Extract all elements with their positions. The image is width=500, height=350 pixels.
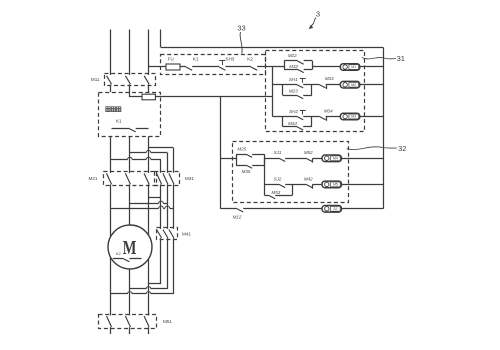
svg-text:M23: M23	[289, 89, 298, 94]
svg-text:3: 3	[316, 9, 320, 18]
svg-text:31: 31	[397, 54, 405, 63]
svg-text:M: M	[123, 237, 137, 259]
svg-text:M5: M5	[333, 183, 338, 187]
svg-text:SH2: SH2	[289, 109, 298, 114]
svg-text:SJ1: SJ1	[274, 150, 282, 155]
svg-text:M21: M21	[89, 176, 98, 181]
svg-text:M11: M11	[91, 77, 100, 82]
svg-text:FU: FU	[168, 56, 174, 61]
svg-text:M12: M12	[233, 215, 242, 220]
svg-text:M2: M2	[351, 83, 356, 87]
svg-text:M35: M35	[242, 169, 251, 174]
svg-text:M51: M51	[163, 319, 172, 324]
svg-text:K2: K2	[247, 57, 253, 62]
svg-text:M34: M34	[288, 121, 297, 126]
svg-text:M52: M52	[304, 150, 313, 155]
svg-text:M41: M41	[182, 232, 191, 237]
svg-text:SJ2: SJ2	[274, 176, 282, 181]
svg-text:SJ: SJ	[333, 207, 337, 211]
svg-text:M53: M53	[272, 190, 281, 195]
svg-text:SH1: SH1	[289, 77, 298, 82]
svg-text:M33: M33	[325, 76, 334, 81]
svg-text:M25: M25	[237, 146, 246, 151]
svg-text:M3: M3	[351, 115, 356, 119]
svg-text:M42: M42	[304, 176, 313, 181]
svg-text:32: 32	[398, 144, 406, 153]
svg-text:SH3: SH3	[225, 57, 234, 62]
svg-text:M1: M1	[351, 65, 356, 69]
svg-text:K1: K1	[116, 119, 122, 124]
svg-text:M32: M32	[289, 64, 298, 69]
svg-text:K1: K1	[193, 57, 199, 62]
svg-text:M4: M4	[333, 157, 338, 161]
svg-text:K2: K2	[116, 251, 122, 256]
svg-text:M31: M31	[185, 176, 194, 181]
svg-text:M34: M34	[324, 109, 333, 114]
svg-text:M22: M22	[288, 53, 297, 58]
svg-text:33: 33	[237, 23, 245, 32]
